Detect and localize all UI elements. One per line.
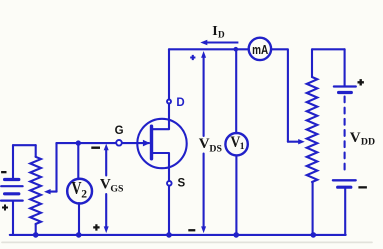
junction: gate/V2 (76, 140, 81, 145)
node G (116, 140, 122, 146)
wire: V2 top stem (77, 143, 79, 179)
junction: R2 bottom (311, 232, 317, 238)
plus (battery B2 top) (358, 79, 364, 85)
R1 wiper arrowhead (44, 189, 51, 194)
svg-text:V: V (199, 136, 210, 152)
R2 wiper arrowhead (298, 139, 305, 144)
wire: V1 bottom stem (235, 155, 237, 235)
svg-text:D: D (176, 97, 184, 109)
svg-text:DS: DS (209, 143, 222, 154)
plus sign (VDS top, blue) (190, 55, 195, 60)
transistor Q1 circle (137, 119, 186, 168)
wire: bottom rail (10, 234, 346, 236)
Q1 source lead (152, 153, 169, 180)
plus (battery B1 bottom) (2, 205, 8, 211)
VDS arrowhead top (201, 51, 206, 58)
wire: V1 top stem (235, 49, 237, 133)
svg-text:G: G (115, 125, 124, 137)
battery B2 bottom lead (344, 189, 346, 235)
minus (battery B1 top) (1, 171, 6, 173)
VGS indicator line (105, 149, 107, 229)
ID arrow shaft (206, 41, 239, 43)
ammeter mA circle (249, 38, 271, 60)
minus (VDS bottom) (188, 229, 195, 231)
wire: source to bottom rail (168, 186, 170, 235)
VGS arrowhead top (104, 144, 109, 151)
VDS arrowhead bottom (201, 226, 206, 233)
svg-text:V: V (100, 176, 111, 192)
wire: drain to top rail (168, 49, 170, 99)
svg-text:I: I (212, 24, 217, 39)
potentiometer R2 zigzag (307, 77, 318, 182)
battery B1 top lead (12, 145, 14, 178)
Q1 channel bar (150, 126, 153, 159)
VDS indicator line (203, 55, 205, 228)
svg-text:V: V (71, 178, 81, 198)
minus (battery B2 bottom) (358, 186, 367, 188)
voltmeter V1 circle (225, 133, 247, 155)
junction: source bottom (166, 232, 172, 238)
junction: V1 bottom (233, 232, 239, 238)
wire: V2 bottom stem (78, 203, 80, 235)
node S (167, 181, 172, 186)
node D (167, 100, 171, 104)
potentiometer R2 leads (311, 49, 313, 77)
battery B2 top plates (334, 85, 356, 87)
Q1 drain lead (152, 104, 169, 129)
svg-text:D: D (218, 30, 225, 40)
scan artifact line (2, 241, 372, 243)
svg-text:GS: GS (110, 183, 124, 194)
svg-text:DD: DD (361, 137, 375, 148)
R1 wiper wire (49, 191, 57, 193)
wire: top right (312, 48, 344, 50)
svg-text:S: S (178, 178, 186, 190)
svg-text:2: 2 (81, 188, 87, 200)
potentiometer R1 zigzag (30, 157, 41, 224)
plus (VGS bottom) (93, 224, 99, 230)
svg-text:1: 1 (240, 142, 245, 152)
VGS arrowhead bottom (104, 226, 109, 233)
svg-text:V: V (350, 130, 361, 146)
battery B2 bottom plates (333, 179, 356, 181)
potentiometer R1 leads (35, 145, 37, 157)
battery B1 plates (5, 178, 19, 181)
voltmeter V2 circle (67, 179, 92, 204)
junction: V2 bottom (76, 232, 82, 238)
battery B2 dashed middle (344, 97, 346, 175)
R2 wiper arrow line (288, 141, 300, 143)
ID arrowhead (200, 40, 207, 45)
Q1 gate arrowhead (143, 140, 150, 147)
junction: R1 bottom (33, 232, 39, 238)
battery B1 bottom lead (12, 201, 14, 235)
minus (VGS top) (91, 147, 100, 149)
wire: left loop top (13, 144, 36, 146)
wire: gate line (57, 142, 116, 144)
wire: top rail (169, 48, 249, 50)
battery B2 top lead (344, 49, 346, 85)
junction: V1 top (234, 47, 239, 52)
svg-text:mA: mA (252, 42, 268, 57)
